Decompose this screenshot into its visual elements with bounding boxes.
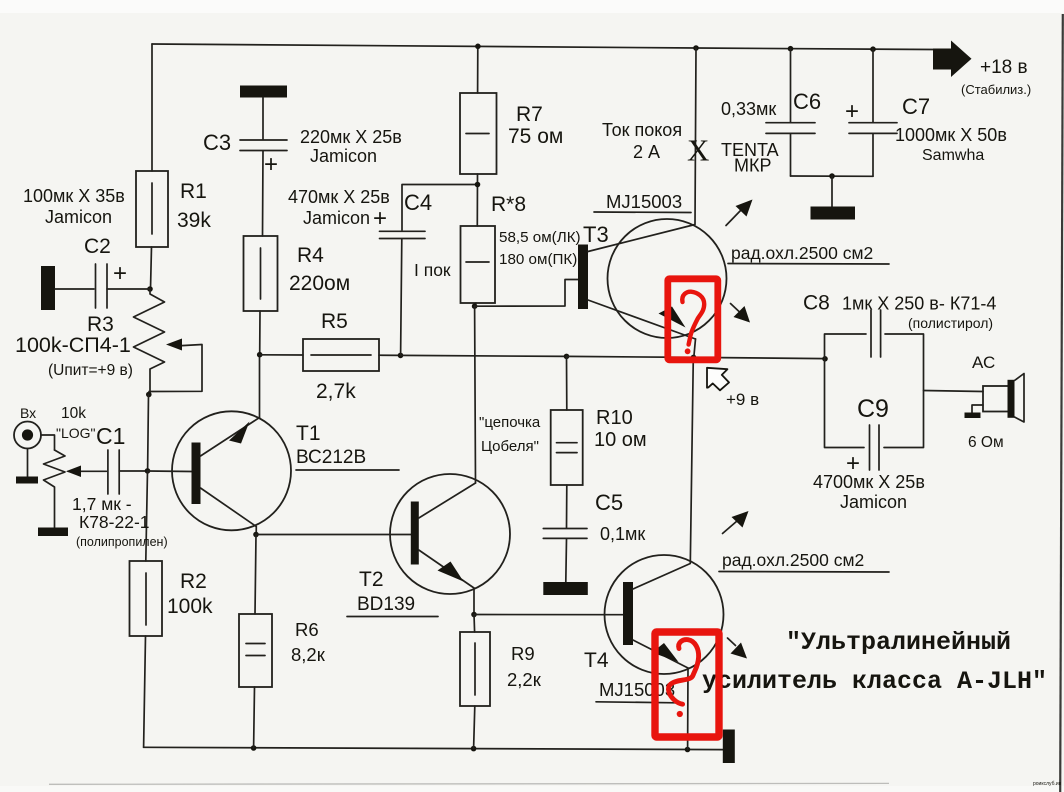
svg-text:+: + [113,260,127,287]
speaker AC body [983,374,1024,423]
svg-text:X: X [687,133,709,168]
svg-text:100k: 100k [167,595,213,618]
terminal bar bottom rail right end [723,730,735,764]
node junction top rail C6 [788,46,794,52]
svg-text:ВС212В: ВС212В [296,447,366,468]
node junction R*8 / T2 collector / T3 base [472,303,478,309]
watermark tiny text [1033,781,1062,787]
svg-text:+9 в: +9 в [726,390,759,409]
node junction top rail C7 [870,46,876,52]
svg-text:рад.охл.2500 см2: рад.охл.2500 см2 [722,550,864,570]
ground C6/C7 [811,207,856,220]
label +18V supply [961,57,1031,97]
faint page bottom line [49,782,889,785]
svg-text:К78-22-1: К78-22-1 [79,512,150,532]
wire node to R5 [260,354,303,356]
wire node down to R6 [255,535,256,615]
potentiometer 10k LOG zigzag [44,450,66,528]
wire R2 bottom to ground rail [144,636,146,747]
wire R5 right to C4 node [379,354,401,356]
wire bottom rail [144,747,723,749]
svg-text:R1: R1 [180,180,207,203]
svg-text:R4: R4 [297,244,324,267]
transistor T3 collector lead [588,48,696,252]
svg-text:"Ультралинейный: "Ультралинейный [786,628,1011,657]
label R3 designator/value [15,313,133,379]
node junction R3 bottom / wiper [146,392,152,398]
wire top +18V rail [152,44,933,50]
svg-text:(Uпит=+9 в): (Uпит=+9 в) [48,362,133,379]
svg-text:+: + [264,151,278,178]
wire T1 emitter up to R4/R5 node [259,355,261,418]
capacitor C9 plates [870,425,880,470]
potentiometer R3 zigzag [134,289,165,394]
capacitor C1 [108,450,148,494]
transistor T2 emitter lead with arrow [419,550,474,615]
wire C9 box to speaker [924,391,984,392]
svg-text:0,33мк: 0,33мк [721,99,776,119]
svg-text:усилитель класса A-JLH": усилитель класса A-JLH" [702,667,1047,696]
X mark [687,133,709,168]
transistor T3 emitter lead with arrow [588,300,696,357]
svg-text:Jamicon: Jamicon [840,492,907,512]
transistor T3 MJ15003 circle [608,219,727,338]
wire node down to R2 [146,471,148,561]
label C9 designator/value [813,395,925,512]
wire R3 wiper loop [149,345,202,392]
svg-text:"цепочка: "цепочка [479,414,541,431]
node junction bottom rail R6 [251,745,257,751]
ground speaker [965,405,984,418]
wire R1 bottom to C2 node [151,247,152,289]
node junction bottom rail R9 [471,746,477,752]
capacitor C3 terminal bar [240,86,287,98]
+18V supply arrow [933,41,972,78]
transistor T1 base bar [192,443,201,505]
wire node to T1 base [148,470,193,473]
capacitor C8 plates [871,310,881,357]
transistor T1 collector lead [201,488,257,535]
resistor R9 [460,615,490,707]
capacitor C3 [240,98,287,237]
svg-text:(Стабилиз.): (Стабилиз.) [961,82,1031,97]
label R10 designator/value [594,407,647,451]
svg-text:C9: C9 [857,395,889,423]
label C4 designator/value [288,187,432,232]
node junction T3 emitter / T4 collector [691,355,697,361]
svg-text:R6: R6 [295,619,319,640]
svg-text:Jamicon: Jamicon [303,208,370,228]
svg-text:10 ом: 10 ом [594,429,647,451]
wire R7 to R*8 [476,174,478,226]
R3 wiper arrowhead [166,339,182,351]
node junction top rail R7 [475,44,481,50]
resistor R10 [551,357,583,486]
pot 10k wiper arrowhead [66,466,81,478]
label R1 designator/value [177,180,211,232]
page right edge line [1060,14,1063,792]
svg-text:6 Ом: 6 Ом [968,434,1004,451]
red question mark 2 [668,640,698,717]
label R6 designator/value [291,619,326,665]
resistor R6 [239,614,272,687]
transistor T2 base bar [411,502,419,565]
wire R3 bottom to C1 node [147,395,150,471]
label speaker AC [968,353,1004,451]
svg-text:Samwha: Samwha [922,147,984,164]
cursor arrow pointer [707,368,729,391]
svg-text:+18 в: +18 в [980,57,1028,78]
label radiator T4 [719,550,889,572]
svg-text:(полистирол): (полистирол) [908,315,993,331]
svg-text:роикслуб.ив: роикслуб.ив [1033,781,1062,787]
label C3 designator/value [203,127,402,178]
arrow radiator T4 lower [728,638,748,659]
wire T1 collector to T2 base [256,534,411,536]
transistor T4 MJ15003 circle [605,555,724,674]
svg-text:1,7 мк -: 1,7 мк - [72,494,132,514]
wire node to R10 node [401,355,567,356]
svg-text:C5: C5 [595,490,623,515]
svg-text:Jamicon: Jamicon [45,207,112,227]
label R7 designator/value [508,103,563,148]
svg-text:2 А: 2 А [633,142,660,162]
svg-text:C2: C2 [84,235,111,258]
svg-text:R2: R2 [180,570,207,593]
label C7 designator/value [845,94,1007,164]
wire R6 bottom to ground rail [253,687,256,748]
label R5 designator/value [316,310,356,403]
svg-text:Цобеля": Цобеля" [481,438,539,455]
svg-text:Вх: Вх [20,405,36,421]
transistor T3 base bar [578,245,588,310]
label C8 designator/value [803,292,996,332]
svg-text:Jamicon: Jamicon [310,146,377,166]
label C2 value [23,186,127,287]
arrow radiator T4 upper [723,511,749,534]
transistor T4 base bar [623,582,633,645]
svg-text:58,5 ом(ЛК): 58,5 ом(ЛК) [499,229,581,246]
svg-text:R5: R5 [321,310,348,333]
svg-text:39k: 39k [177,209,211,232]
svg-text:МКР: МКР [734,156,772,176]
node junction R5/C4 [398,353,404,359]
title line 1 [786,628,1011,657]
svg-text:1мк X 250 в- К71-4: 1мк X 250 в- К71-4 [842,294,996,314]
wire R*8 bottom to node [475,303,476,306]
transistor T1 emitter lead with arrow [201,418,260,457]
svg-text:1000мк X 50в: 1000мк X 50в [895,125,1007,145]
node junction bottom rail T4 emitter [685,747,691,753]
svg-text:T2: T2 [359,568,384,591]
svg-text:220мк X 25в: 220мк X 25в [300,127,402,147]
svg-text:4700мк X 25в: 4700мк X 25в [813,472,925,492]
wire R9 bottom to ground rail [474,706,475,749]
transistor T1 BC212B circle [172,411,291,530]
svg-text:C8: C8 [803,292,830,315]
wire node down to T2 collector [474,306,477,483]
label R2 designator/value [167,570,213,618]
svg-text:C4: C4 [404,190,432,215]
capacitor C6 [766,49,815,176]
transistor T4 emitter lead with arrow [633,640,688,749]
svg-text:470мк X 25в: 470мк X 25в [288,187,390,207]
red annotation box 1 (T3 emitter) [668,279,718,360]
svg-text:рад.охл.2500 см2: рад.охл.2500 см2 [731,243,873,263]
resistor R4 [244,236,278,311]
transistor T2 collector lead [419,483,476,518]
svg-text:180 ом(ПК): 180 ом(ПК) [499,251,577,268]
svg-text:T1: T1 [296,422,321,445]
label C6 designator/value [721,89,821,176]
label T1 designator/type [296,422,399,470]
svg-text:R7: R7 [516,103,543,126]
label quiescent current [602,120,682,162]
node junction T1 collector / R6 / T2 base [253,532,259,538]
svg-text:C7: C7 [902,94,930,119]
capacitor C4 [380,185,478,356]
resistor R5 [303,339,379,371]
svg-text:C1: C1 [96,423,125,449]
svg-text:+: + [373,205,387,232]
wire jack to pot [41,435,55,450]
label Zobel network [479,414,541,455]
capacitor C2 terminal bar [41,266,55,310]
label T4 designator/type [584,649,676,703]
svg-text:8,2к: 8,2к [291,644,326,665]
wire C6/C7 bottoms joined [791,175,874,177]
resistor R*8 [461,226,496,303]
input jack Вх [14,422,41,449]
wire left rail down to R1 [151,44,153,171]
svg-text:I пок: I пок [414,260,451,280]
wire rail down to R7 [477,47,479,94]
svg-text:АС: АС [972,353,995,372]
capacitor C2 [55,264,150,308]
svg-text:Т3: Т3 [583,222,609,247]
svg-text:220ом: 220ом [289,272,350,295]
svg-text:10k: 10k [61,405,86,422]
svg-text:R10: R10 [596,407,633,429]
label R*8 designator/value [414,193,581,280]
wire pot wiper to C1 [68,470,107,472]
transistor T4 collector lead [633,358,693,589]
svg-text:Т4: Т4 [584,649,609,672]
wire R4 bottom to node [259,311,261,355]
ground pot 10k [38,528,68,537]
svg-text:MJ15003: MJ15003 [606,191,682,212]
svg-text:100k-СП4-1: 100k-СП4-1 [15,333,131,357]
node junction R7/R*8/C4 [475,182,481,188]
wire node to C9 box [694,357,826,358]
svg-text:2,7k: 2,7k [316,380,356,403]
arrow radiator T3 upper [726,200,753,226]
capacitor C9 box outline [825,334,924,448]
svg-text:0,1мк: 0,1мк [600,524,645,544]
label input Вх [20,405,36,421]
resistor R7 [460,93,497,174]
label R9 designator/value [507,643,542,690]
ground jack [16,449,38,484]
label R4 designator/value [289,244,350,295]
svg-text:+: + [845,98,859,125]
resistor R1 [136,171,168,247]
capacitor C7 [849,49,897,176]
svg-text:C6: C6 [793,89,821,114]
red annotation box 2 (T4 emitter) [655,632,719,737]
svg-text:"LOG": "LOG" [56,425,96,441]
svg-text:75 ом: 75 ом [508,125,563,148]
svg-text:BD139: BD139 [357,594,415,615]
ground C5 [543,582,588,595]
arrow radiator T3 lower [731,304,751,323]
label radiator T3 [728,243,889,264]
title line 2 [702,667,1047,696]
wire node to T3 emitter node [567,356,694,357]
capacitor C5 [543,485,587,582]
label C1 designator/value [72,423,168,549]
svg-text:(полипропилен): (полипропилен) [76,535,168,549]
label T2 designator/type [347,568,438,617]
node junction C1/R3/R2/T1 base [145,468,151,474]
label pot 10k LOG [56,405,96,441]
node junction C9 box left [822,356,828,362]
wire node to T3 base (step) [475,280,578,307]
svg-text:Ток покоя: Ток покоя [602,120,682,140]
svg-text:100мк X 35в: 100мк X 35в [23,186,125,206]
node junction C2/R1/R3 [147,286,153,292]
node junction C6/C7 ground stub [829,173,835,207]
label C5 designator/value [595,490,645,544]
node junction T2 emitter / R9 / T4 base [471,612,477,618]
svg-text:MJ15003: MJ15003 [599,679,675,700]
red question mark 1 [682,292,704,355]
svg-text:R9: R9 [511,643,535,664]
label T3 designator/type [583,191,691,247]
node junction top rail T3 collector [693,45,699,51]
resistor R2 [130,561,163,636]
node junction R10 top [564,354,570,360]
svg-text:2,2к: 2,2к [507,669,542,690]
node junction R4/R5/T1 emitter [257,352,263,358]
svg-text:C3: C3 [203,130,231,155]
transistor T2 BD139 circle [390,474,510,594]
wire node to T4 base [474,614,623,616]
svg-text:R*8: R*8 [491,193,526,216]
node label +9V [726,390,759,409]
